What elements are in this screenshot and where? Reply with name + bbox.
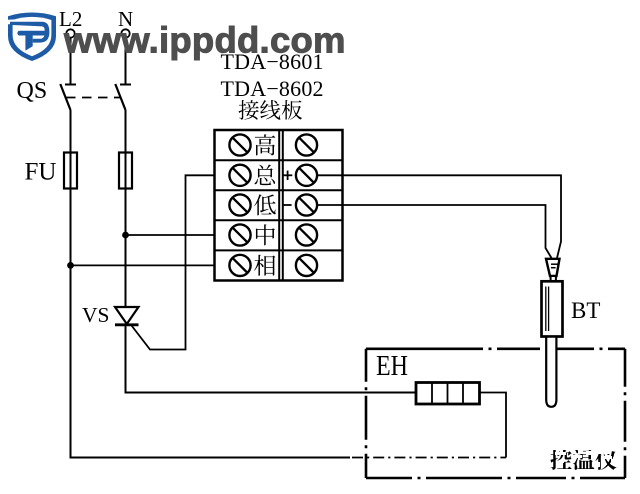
- heater EH element: [416, 383, 480, 405]
- wire L2 drop to switch: [70, 38, 72, 84]
- switch QS fixed contact tick (L2 pole): [65, 84, 76, 86]
- node N terminal circle: [121, 29, 129, 37]
- wire L2 line fuse to bottom corner: [71, 189, 351, 458]
- junction dot N/中: [122, 232, 129, 239]
- wire bottom dash-dot section: [352, 457, 506, 459]
- polarity mark -: [283, 204, 292, 206]
- terminal row 5 (right): [296, 255, 317, 276]
- fuse FU (L2 pole): [64, 152, 77, 189]
- label 总: [255, 165, 276, 186]
- watermark logo shield: [5, 13, 57, 62]
- svg-text:BT: BT: [571, 298, 600, 323]
- label 中: [256, 224, 275, 245]
- label 高: [255, 134, 276, 155]
- svg-text:www.ippdd.com: www.ippdd.com: [63, 20, 347, 61]
- garbled text 控温仪 (damaged): [548, 445, 620, 470]
- terminal 相 (left, row 5): [229, 255, 250, 276]
- thyristor VS triangle: [115, 307, 139, 324]
- switch QS blade (L2 pole): [60, 84, 70, 110]
- switch QS linkage dashed line: [66, 97, 120, 99]
- svg-text:VS: VS: [82, 303, 109, 327]
- thyristor VS cathode bar: [115, 323, 139, 326]
- wire + to probe: [317, 175, 561, 258]
- wire L2 switch to fuse: [70, 110, 72, 153]
- terminal 高 (left, row 1): [229, 134, 250, 155]
- probe BT connector funnel: [546, 259, 560, 276]
- terminal row 1 (right): [296, 134, 317, 155]
- probe BT sheath tube: [546, 337, 556, 407]
- terminal row 4 (right): [296, 224, 317, 245]
- terminal 低 (left, row 3): [229, 194, 250, 215]
- wire - to probe: [317, 205, 552, 258]
- node L2 terminal circle: [66, 29, 74, 37]
- wire heater to bottom line: [480, 393, 507, 458]
- enclosure boundary (chain line box): [366, 349, 625, 478]
- switch QS blade (N pole): [115, 84, 125, 110]
- terminal 中 (left, row 4): [229, 224, 250, 245]
- wire VS cathode down and to heater: [126, 326, 417, 393]
- label 接线板 (terminal board): [239, 100, 259, 120]
- label 相: [254, 255, 275, 276]
- wire VS gate lead: [132, 175, 232, 349]
- svg-text:EH: EH: [376, 350, 408, 382]
- junction dot L2/相: [67, 262, 74, 269]
- svg-text:FU: FU: [25, 159, 57, 186]
- svg-text:TDA−8602: TDA−8602: [221, 76, 324, 101]
- terminal 总 (left, row 2): [229, 165, 250, 186]
- terminal block row dividers: [215, 160, 343, 250]
- terminal block centre double divider: [278, 130, 280, 281]
- svg-text:QS: QS: [17, 78, 48, 104]
- probe BT neck: [551, 276, 556, 281]
- wire N drop to switch: [125, 38, 127, 84]
- terminal block outline: [215, 130, 343, 281]
- wire 中 row to N line: [126, 234, 232, 236]
- terminal row 2 (right): [296, 165, 317, 186]
- terminal row 3 (right): [296, 194, 317, 215]
- logo letter P: [10, 22, 42, 27]
- probe BT body: [542, 281, 563, 336]
- polarity mark +: [283, 171, 292, 180]
- wire N line fuse to VS anode: [125, 189, 127, 309]
- label 低: [254, 194, 275, 215]
- wire N switch to fuse: [125, 110, 127, 153]
- wire 相 row to L2 line: [71, 264, 232, 266]
- switch QS fixed contact tick (N pole): [120, 84, 131, 86]
- fuse FU (N pole): [119, 153, 132, 189]
